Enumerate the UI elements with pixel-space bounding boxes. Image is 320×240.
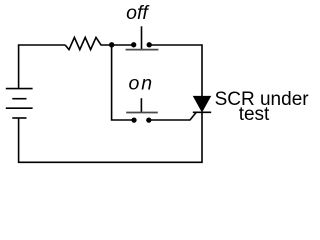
svg-text:test: test bbox=[239, 104, 270, 125]
svg-text:on: on bbox=[128, 73, 154, 95]
svg-text:off: off bbox=[126, 2, 150, 24]
